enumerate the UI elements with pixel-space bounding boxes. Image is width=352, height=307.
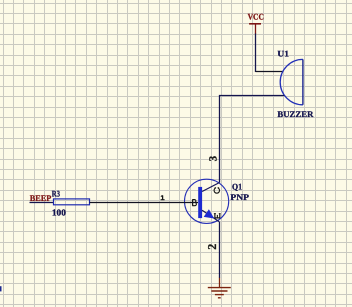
wire buzzer pin 2 to transistor collector [220, 96, 285, 183]
clipped mark at left edge [0, 286, 2, 291]
svg-text:3: 3 [207, 155, 219, 161]
wire resistor to base [90, 202, 199, 204]
svg-text:VCC: VCC [248, 12, 264, 22]
power port GND [208, 278, 231, 298]
base bar [198, 187, 202, 218]
resistor R3 body [54, 199, 90, 205]
emitter diagonal [202, 210, 219, 222]
svg-text:100: 100 [52, 207, 66, 217]
emitter arrow [204, 209, 215, 218]
pin name B [192, 200, 196, 206]
pin name E (rotated) [214, 214, 221, 218]
svg-text:PNP: PNP [230, 192, 249, 202]
svg-text:R3: R3 [52, 188, 60, 198]
pin number 1 [161, 195, 165, 199]
wire VCC to buzzer pin 1 [255, 34, 257, 73]
wire/pin horizontal into buzzer top [256, 71, 284, 73]
wire BEEP to resistor [30, 202, 54, 204]
svg-text:U1: U1 [277, 49, 289, 59]
collector diagonal [202, 183, 219, 192]
transistor Q1 circle [185, 179, 229, 223]
svg-text:2: 2 [205, 244, 219, 250]
power port VCC [248, 12, 264, 34]
svg-text:BEEP: BEEP [30, 193, 52, 203]
wire emitter to ground [219, 222, 221, 278]
svg-text:BUZZER: BUZZER [277, 109, 314, 119]
svg-text:Q1: Q1 [232, 181, 242, 191]
buzzer U1 body [280, 59, 303, 104]
pin name C (rotated) [214, 188, 220, 193]
